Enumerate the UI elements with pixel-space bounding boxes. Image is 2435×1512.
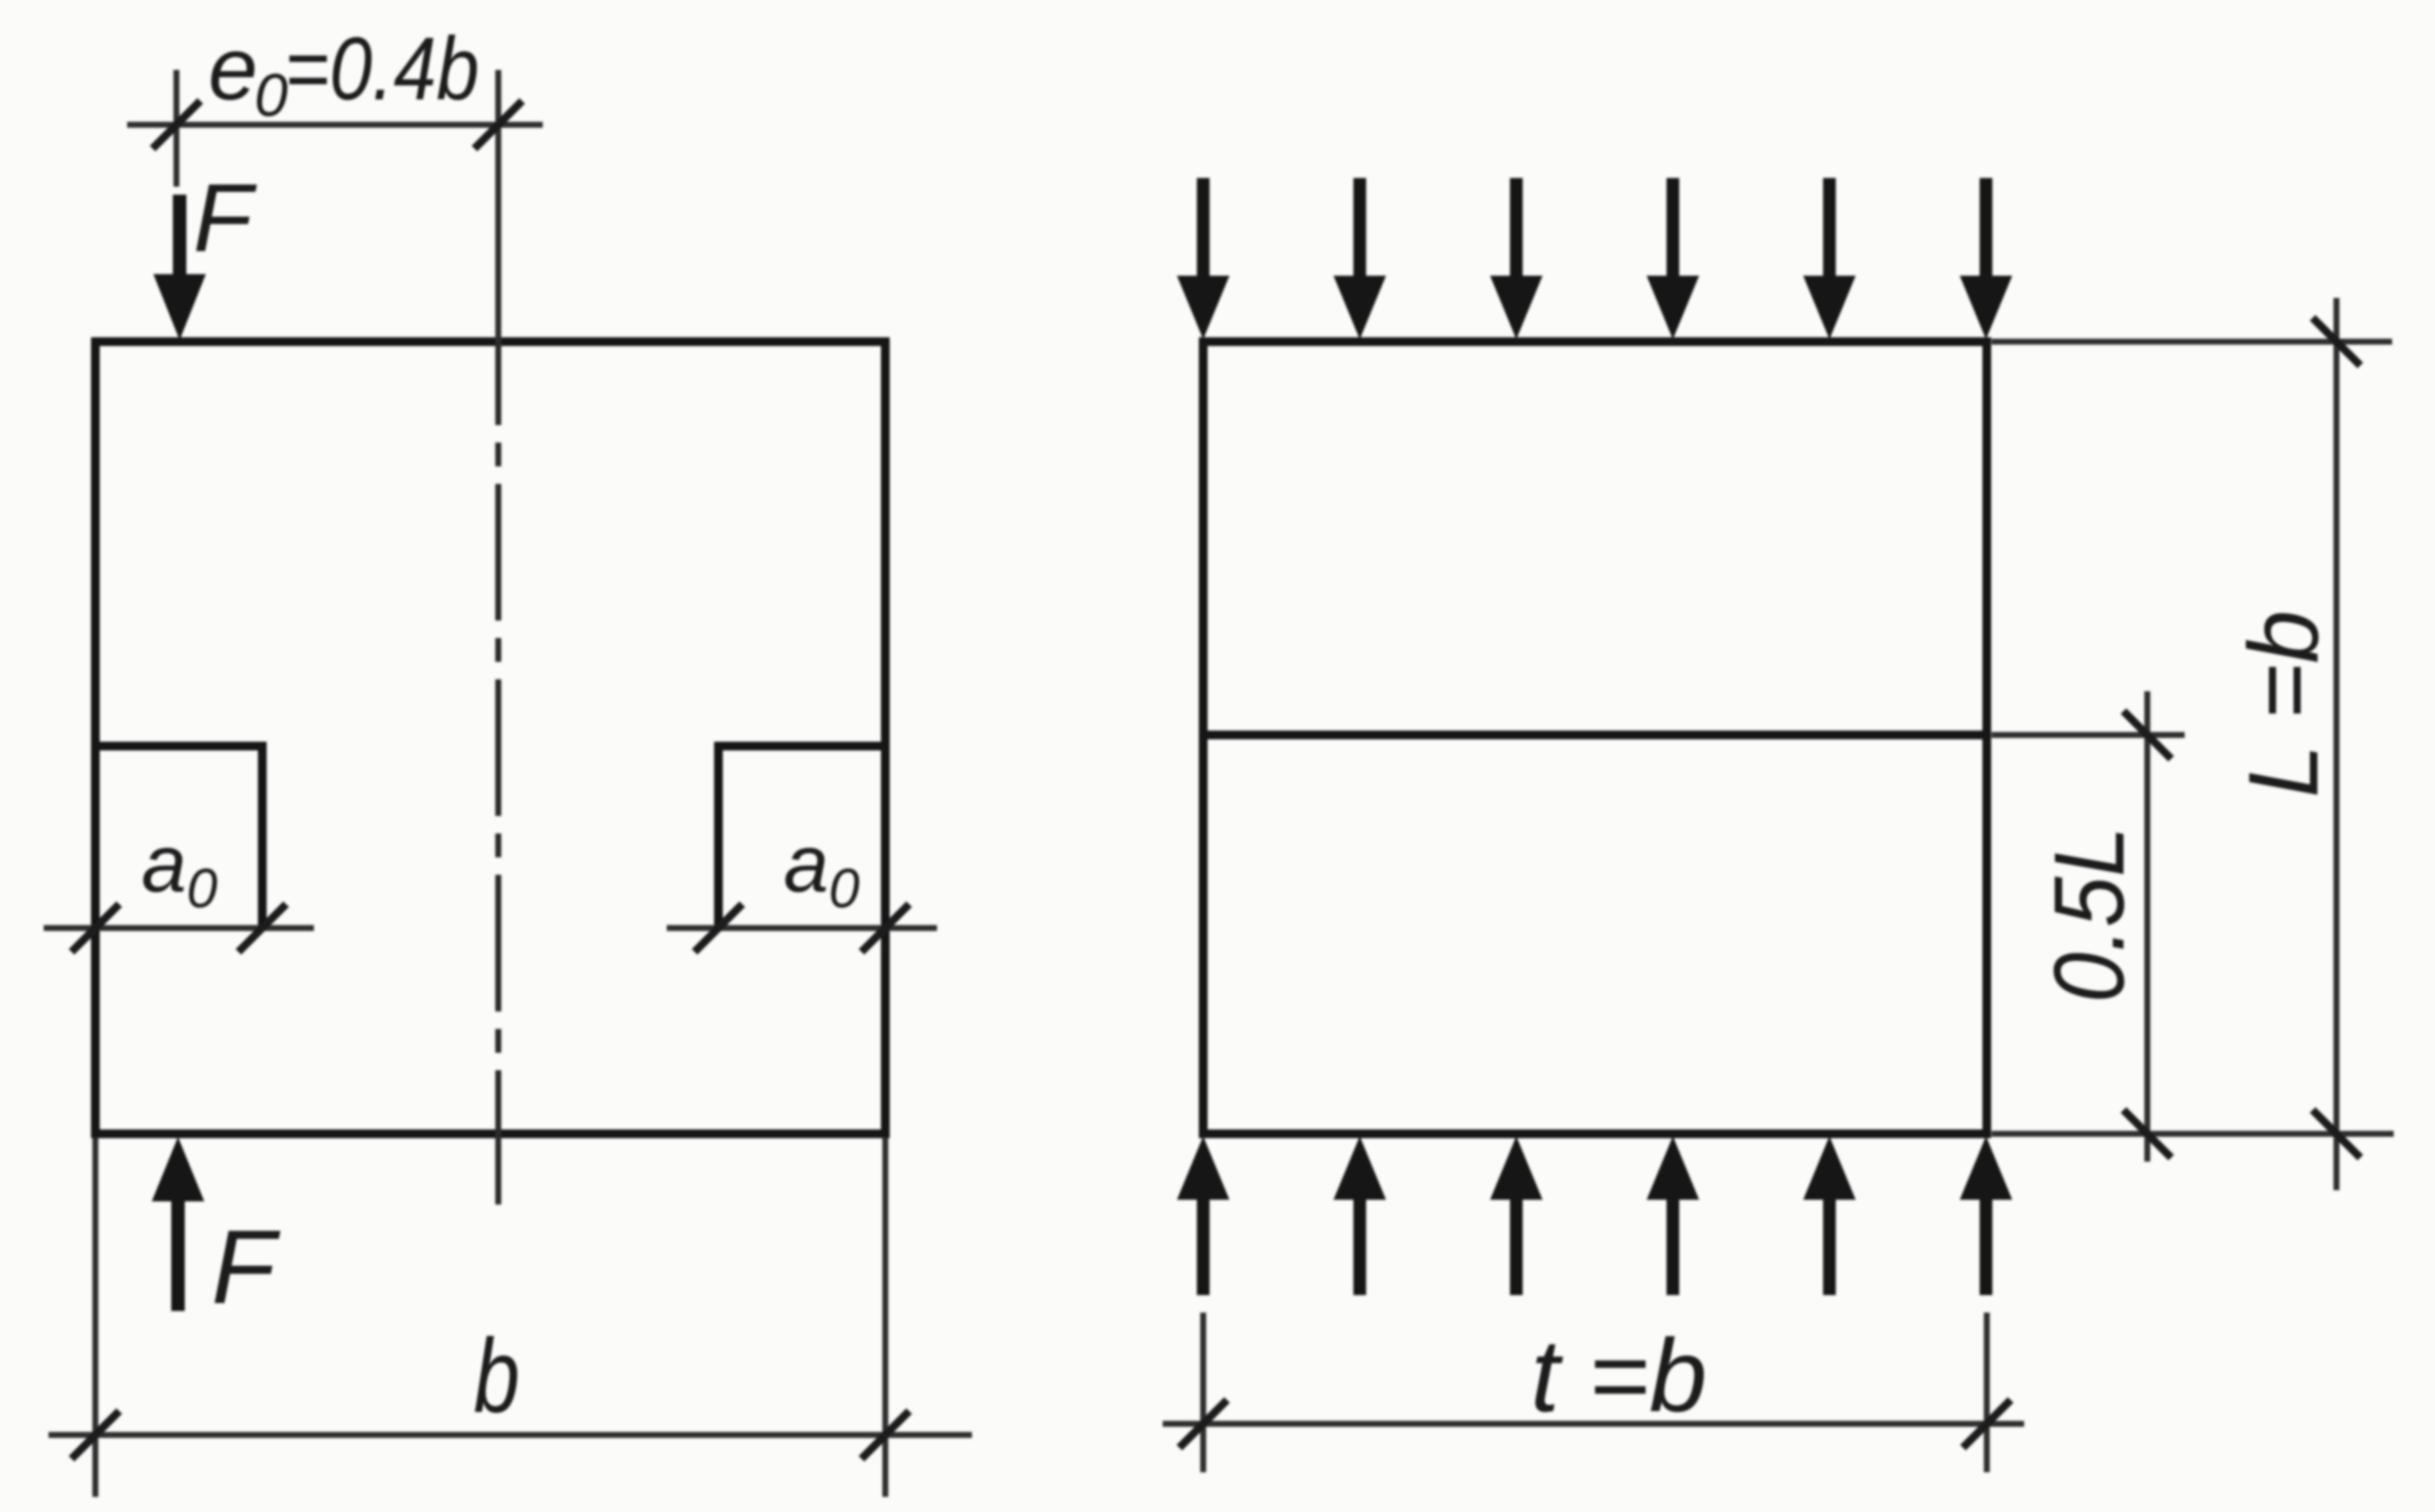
svg-text:0.5L: 0.5L (2034, 826, 2145, 1003)
svg-text:e: e (208, 19, 257, 118)
svg-text:F: F (211, 1208, 281, 1325)
svg-text:t =b: t =b (1531, 1317, 1707, 1433)
svg-text:b: b (474, 1317, 520, 1434)
svg-text:0: 0 (254, 62, 288, 130)
svg-text:F: F (193, 164, 257, 272)
svg-text:=0.4b: =0.4b (285, 19, 479, 118)
svg-text:L =b: L =b (2229, 610, 2339, 798)
